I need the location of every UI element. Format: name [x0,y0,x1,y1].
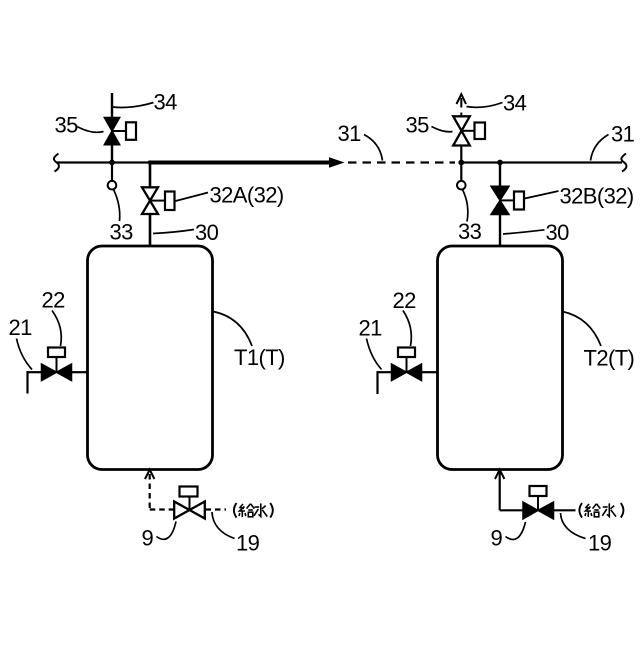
label 34 (right) leader [467,103,503,108]
valve 35 (left, closed, filled bowtie) [104,118,119,145]
label 19 (left) leader [212,512,235,539]
svg-text:T2(T): T2(T) [584,346,635,371]
arrow: feed flow into tank T1 bottom [145,470,154,479]
svg-text:34: 34 [503,91,527,116]
label 34 (left) leader [113,103,154,108]
svg-text:22: 22 [42,288,66,313]
svg-text:30: 30 [546,220,570,245]
node: junction of vent branch 35 with line 31 (left) [109,160,115,166]
label 22 (right) leader [403,311,411,347]
label 32B(32) leader [525,191,559,199]
wire: drain pipe from valve 21 to elbow (right) [377,371,392,373]
sensor circle 33 (right) [457,181,466,190]
wire: stub above valve 35 (right) [460,113,462,118]
svg-text:9: 9 [142,526,154,551]
svg-text:35: 35 [406,113,430,138]
label 19 (right) leader [561,513,586,539]
svg-text:32B(32): 32B(32) [560,184,634,209]
wire: feed pipe horizontal to valve 9 (right) [500,509,524,511]
label 9 (left) leader [157,522,177,540]
label 32A(32) leader [176,193,209,202]
svg-text:21: 21 [359,316,383,341]
node: junction of vent branch 35 with line 31 (right) [458,160,464,166]
svg-text:30: 30 [195,220,219,245]
arrow: vent direction above valve 35 (right) [457,94,467,107]
wire: stub from line 31 down to sensor 33 (left) [111,163,113,182]
arrowhead on bold line 31 [329,157,345,167]
wire: main line 31 right thin segment [460,161,622,163]
wire: pipe 30 from valve 32B to tank T2 [499,215,501,248]
label kanji kyuu (left) [239,504,254,517]
actuator 22 of valve 21 (left) [48,348,65,373]
wire: from valve 35 down to line 31 (right) [460,146,462,164]
svg-text:33: 33 [458,219,482,244]
label 35 (right) leader [432,127,453,132]
valve 9 (right, closed, filled bowtie horizontal) [523,502,554,519]
label kanji sui (right) [602,503,616,516]
valve 21 (left, closed, filled bowtie horizontal) [42,364,72,381]
label (kyuusui water supply) left: open paren [234,503,237,518]
label kanji sui (left) [254,503,267,516]
valve 35 (right, open bowtie) [453,116,470,145]
sensor circle 33 (left) [108,181,117,190]
svg-text:32A(32): 32A(32) [210,183,284,208]
valve 9 (left, open bowtie horizontal) [174,502,205,519]
wire: from valve 35 down to line 31 (left) [111,145,113,164]
arrow: feed flow into tank T2 bottom [495,470,504,479]
svg-text:19: 19 [588,531,612,556]
wire: feed pipe to water-supply label (right) [554,509,576,511]
label 9 (right) leader [506,522,526,539]
tank T2 [438,246,563,470]
label (kyuusui water supply) left: close paren [270,503,273,518]
actuator of valve 32A [150,192,175,211]
label 30 (left) leader [153,230,194,234]
wire: bold pipe segment of line 31 with flow arrow [148,161,331,165]
label kanji kyuu (right) [585,504,600,517]
svg-text:9: 9 [491,526,503,551]
label 31 (right instance) leader [591,135,609,161]
svg-text:T1(T): T1(T) [234,345,285,370]
actuator of valve 9 (left) [180,487,198,511]
label (kyuusui water supply) right: close paren [621,503,624,518]
node: junction of pipe 30 with line 31 (right) [497,160,503,166]
valve 21 (right, closed, filled bowtie horizontal) [392,364,422,381]
svg-text:31: 31 [611,122,635,147]
svg-text:22: 22 [393,288,417,313]
label 21 (left) leader [17,339,33,370]
label 21 (right) leader [367,339,382,370]
wire: dashed middle segment of line 31 [348,161,455,163]
label T1(T) leader [213,312,252,347]
svg-text:21: 21 [9,315,33,340]
actuator of valve 35 (right) [462,123,486,140]
wire: pipe 30 from valve 32A to tank T1 [149,214,152,248]
wire: drain elbow stub down (right) [376,371,378,394]
label 33 (right) leader [463,190,468,222]
valve 32A (open bowtie) [142,187,158,214]
wire: dashed feed pipe horizontal to valve 9 (left) [150,508,174,510]
tank T1 [88,246,213,470]
label (kyuusui water supply) right: open paren [579,503,582,518]
valve 32B (closed, filled bowtie) [491,186,509,214]
wire: stub from line 31 down to sensor 33 (right) [460,163,462,182]
actuator of valve 35 (left) [112,122,136,140]
label 35 (left) leader [77,127,104,133]
label 33 (left) leader [114,190,120,222]
wire: drain pipe from tank T2 to valve 21 (right) [422,371,438,373]
svg-text:33: 33 [110,220,134,245]
svg-text:34: 34 [154,90,178,115]
wire: dashed feed pipe vertical (left) [149,474,151,510]
wire: pipe 30 from line 31 to valve 32B (right) [499,161,501,187]
svg-text:35: 35 [55,113,79,138]
wire: feed pipe vertical (right) [499,472,501,510]
label 22 (left) leader [52,311,61,347]
wire: drain pipe from valve 21 to elbow (left) [27,371,42,373]
wire: pipe 30 from line 31 to valve 32A (left) [149,161,152,187]
actuator of valve 32B [500,192,524,210]
label 31 (left instance) leader [364,135,383,161]
wire: drain pipe from tank T1 to valve 21 (left) [72,371,88,373]
wire: vent pipe 34 above valve 35 (left) [111,93,113,119]
svg-text:31: 31 [338,121,362,146]
wire: dashed feed pipe to water-supply label (left) [206,508,227,510]
wire: main line 31 left thin segment [57,161,150,163]
wire: drain elbow stub down (left) [26,371,28,393]
pipe break symbol left end of line 31 [54,154,59,172]
label 30 (right) leader [503,230,545,234]
actuator of valve 9 (right) [530,486,547,510]
actuator 22 of valve 21 (right) [398,348,415,373]
label T2(T) leader [563,312,602,347]
pipe break symbol right end of line 31 [621,154,626,172]
svg-text:19: 19 [236,531,260,556]
